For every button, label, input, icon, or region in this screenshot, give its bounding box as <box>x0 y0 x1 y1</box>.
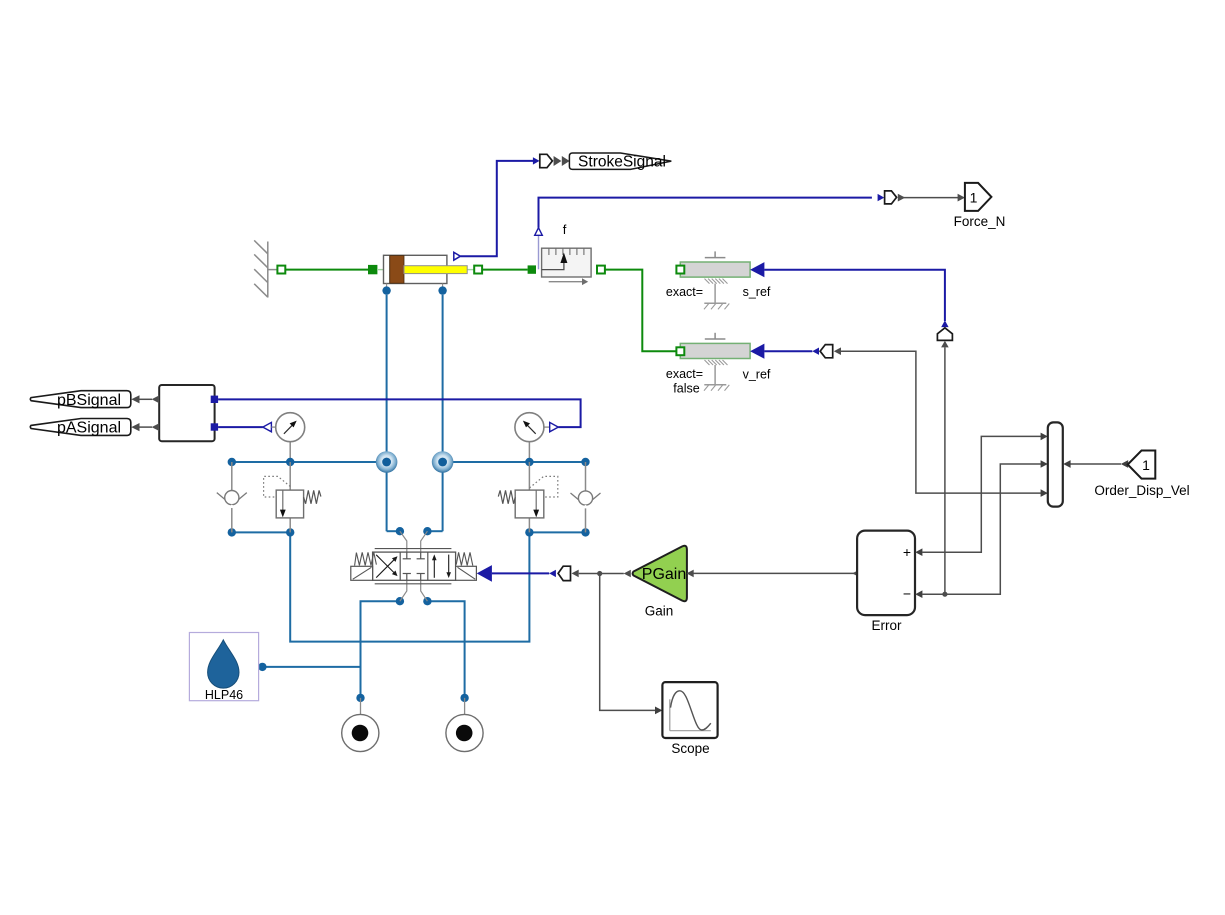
arrow into Error minus <box>915 590 922 598</box>
svg-text:f: f <box>563 222 567 237</box>
wire grey v_ref to demux <box>841 351 1041 493</box>
arrow at block edge pA <box>152 423 160 431</box>
right solenoid <box>456 566 477 580</box>
wire grey demux out1 to Error plus <box>922 436 1041 552</box>
arrow into pBSignal tag <box>131 395 139 403</box>
arrow into StrokeSignal connector <box>533 157 540 164</box>
Force_N grey arrow 2 <box>958 194 965 202</box>
hydraulic junction dots <box>228 286 590 702</box>
right check valve <box>571 462 601 532</box>
junction dot feedback/minus <box>942 592 947 597</box>
wire grey scope branch <box>600 574 656 711</box>
force sensor f <box>542 248 592 285</box>
HLP46 fluid block <box>189 633 258 701</box>
svg-text:v_ref: v_ref <box>743 368 771 382</box>
svg-text:pBSignal: pBSignal <box>57 392 121 409</box>
pale mechanical line through cylinder <box>377 269 384 271</box>
v_ref navy wire <box>764 350 812 352</box>
right cell parallel arrows <box>433 559 435 578</box>
wire grey Error to PGain <box>694 572 858 574</box>
force sensor force-signal triangle <box>535 228 543 270</box>
svg-text:Force_N: Force_N <box>954 214 1006 229</box>
junction dot gain/scope <box>597 571 602 576</box>
wire grey block to pASignal <box>139 426 152 428</box>
right gauge input triangle <box>550 422 559 431</box>
arrow into Force_N connector <box>878 194 885 201</box>
left cell crossed arrows <box>376 559 395 578</box>
hydraulic volume node B <box>432 451 454 473</box>
Force_N grey arrow 1 <box>898 194 905 202</box>
directional control valve 4/3 <box>351 549 477 584</box>
svg-text:HLP46: HLP46 <box>205 688 243 702</box>
Order_Disp_Vel inport pentagon <box>1128 451 1156 479</box>
rod end connector (open green square) <box>474 266 482 274</box>
wire signal to Force_N port <box>903 197 958 199</box>
v_ref input arrow (navy) <box>750 344 764 359</box>
StrokeSignal tag <box>569 153 671 169</box>
svg-text:Gain: Gain <box>645 604 674 619</box>
cylinder rod-side connector (filled green square) <box>369 265 377 273</box>
valve control input triangle (navy) <box>477 565 492 582</box>
force sensor output connector (open green square) <box>597 266 605 274</box>
arrow into demux top input <box>1041 433 1048 441</box>
wire navy block pA to left gauge <box>218 426 263 428</box>
v_ref pentagon connector <box>820 345 833 358</box>
wire mechanical rod to force sensor <box>482 269 527 271</box>
arrow into Error plus <box>915 548 922 556</box>
StrokeSignal chevrons <box>554 156 562 166</box>
wire hydraulic top rail right <box>443 461 586 463</box>
svg-text:+: + <box>903 544 911 560</box>
block pB output connector (navy square) <box>211 396 218 403</box>
arrow into demux bottom input <box>1041 489 1048 497</box>
wire hydraulic cylinder port B down <box>442 295 444 532</box>
valve signal pentagon connector <box>558 566 570 580</box>
wire hydraulic bottom rail left <box>232 531 290 533</box>
arrow up into s_ref wire <box>941 320 948 327</box>
grey arrow into v_ref pentagon <box>834 347 841 355</box>
right spring <box>456 552 473 565</box>
left pressure gauge <box>271 413 304 462</box>
wire hydraulic valve P to pump2 <box>427 601 464 698</box>
StrokeSignal pentagon connector <box>540 154 553 167</box>
arrow at block edge pB <box>152 395 160 403</box>
wire signal feedback to s_ref <box>764 270 945 321</box>
svg-text:exact=: exact= <box>666 285 703 299</box>
block pA output connector (navy square) <box>211 423 218 430</box>
directional valve port slants <box>400 531 428 601</box>
wire navy block pB to right gauge <box>218 399 580 427</box>
wire grey vertical feedback <box>944 347 946 594</box>
hydraulic lines (teal) <box>232 295 586 698</box>
pASignal tag <box>30 419 130 436</box>
arrow into valve wire <box>549 570 556 577</box>
wire hydraulic HLP46 to line <box>262 666 360 668</box>
left solenoid <box>351 566 373 580</box>
wire hydraulic to valve port B <box>427 530 442 532</box>
wire navy valve input <box>492 572 549 574</box>
svg-text:s_ref: s_ref <box>743 285 771 299</box>
left gauge input triangle <box>263 422 272 431</box>
PGain gain block <box>633 546 687 601</box>
arrow into v_ref wire <box>812 348 819 355</box>
middle cell closed ports <box>403 552 425 580</box>
wire grey block to pBSignal <box>139 398 152 400</box>
arrow at Order pentagon <box>1121 460 1128 468</box>
feedback up-pentagon connector <box>937 328 952 341</box>
wire signal force sensor to Force_N <box>539 198 872 228</box>
cylinder piston (brown) <box>390 256 404 284</box>
svg-text:Error: Error <box>872 618 903 633</box>
s_ref input arrow (navy) <box>750 262 764 277</box>
grey arrow up into pentagon <box>941 341 949 348</box>
svg-text:StrokeSignal: StrokeSignal <box>578 153 666 170</box>
svg-text:PGain: PGain <box>642 566 686 583</box>
svg-text:Order_Disp_Vel: Order_Disp_Vel <box>1094 483 1189 498</box>
left relief valve <box>264 462 321 532</box>
Scope block <box>662 682 717 738</box>
wall mechanical connector (open green square) <box>277 266 285 274</box>
arrow at demux right edge <box>1063 460 1070 468</box>
wire hydraulic tank loop <box>290 532 529 641</box>
Force_N outport pentagon <box>965 183 992 211</box>
v_ref input connector (open green square) <box>676 347 684 355</box>
cylinder port stubs <box>387 284 443 288</box>
right pressure gauge <box>515 413 550 462</box>
wire hydraulic to valve port A <box>387 530 400 532</box>
wire hydraulic valve T to pump1 <box>361 601 400 698</box>
hydraulic cylinder body <box>384 255 447 283</box>
wire grey Order to demux <box>1071 463 1122 465</box>
wire signal cylinder stroke to StrokeSignal <box>460 161 533 256</box>
pBSignal tag <box>30 391 130 408</box>
wire mechanical force sensor to v_ref <box>605 270 677 352</box>
Force_N pentagon connector <box>885 191 897 204</box>
arrow into PGain apex <box>624 570 631 578</box>
arrow at PGain right edge <box>687 570 694 578</box>
left check valve <box>217 462 247 532</box>
wire hydraulic top rail left <box>232 461 377 463</box>
cylinder stroke output triangle <box>454 252 461 260</box>
fixed wall support <box>254 240 277 297</box>
s_ref preset block <box>680 251 750 309</box>
Error block <box>857 531 915 616</box>
arrow into Scope <box>655 707 662 715</box>
svg-text:exact=: exact= <box>666 367 703 381</box>
wire hydraulic bottom rail right <box>529 531 585 533</box>
hydraulic volume node A <box>376 451 398 473</box>
svg-text:pASignal: pASignal <box>57 420 121 437</box>
pressure signal block <box>159 385 214 441</box>
arrow at Error output <box>852 570 858 577</box>
force sensor input connector (filled green square) <box>528 265 536 273</box>
svg-text:−: − <box>903 586 911 602</box>
demux bar <box>1048 422 1063 506</box>
pump 2 <box>446 698 483 752</box>
svg-text:false: false <box>673 382 699 396</box>
v_ref preset block <box>680 333 750 391</box>
svg-text:Scope: Scope <box>671 741 709 756</box>
pump 1 <box>342 698 379 752</box>
wire grey valve pentagon to PGain <box>579 573 624 575</box>
wire grey demux out2 to Error minus <box>922 464 1041 594</box>
grey arrow into valve pentagon <box>572 570 579 578</box>
wire hydraulic cylinder port A down <box>386 295 388 532</box>
right relief valve <box>498 462 558 532</box>
cylinder rod (yellow) <box>404 266 467 274</box>
svg-text:1: 1 <box>1142 457 1150 473</box>
s_ref input connector (open green square) <box>676 266 684 274</box>
left spring <box>355 552 377 565</box>
arrow into pASignal tag <box>131 423 139 431</box>
svg-text:1: 1 <box>970 189 978 205</box>
arrow into demux middle input <box>1041 460 1048 468</box>
wire mechanical wall to cylinder <box>286 269 369 271</box>
